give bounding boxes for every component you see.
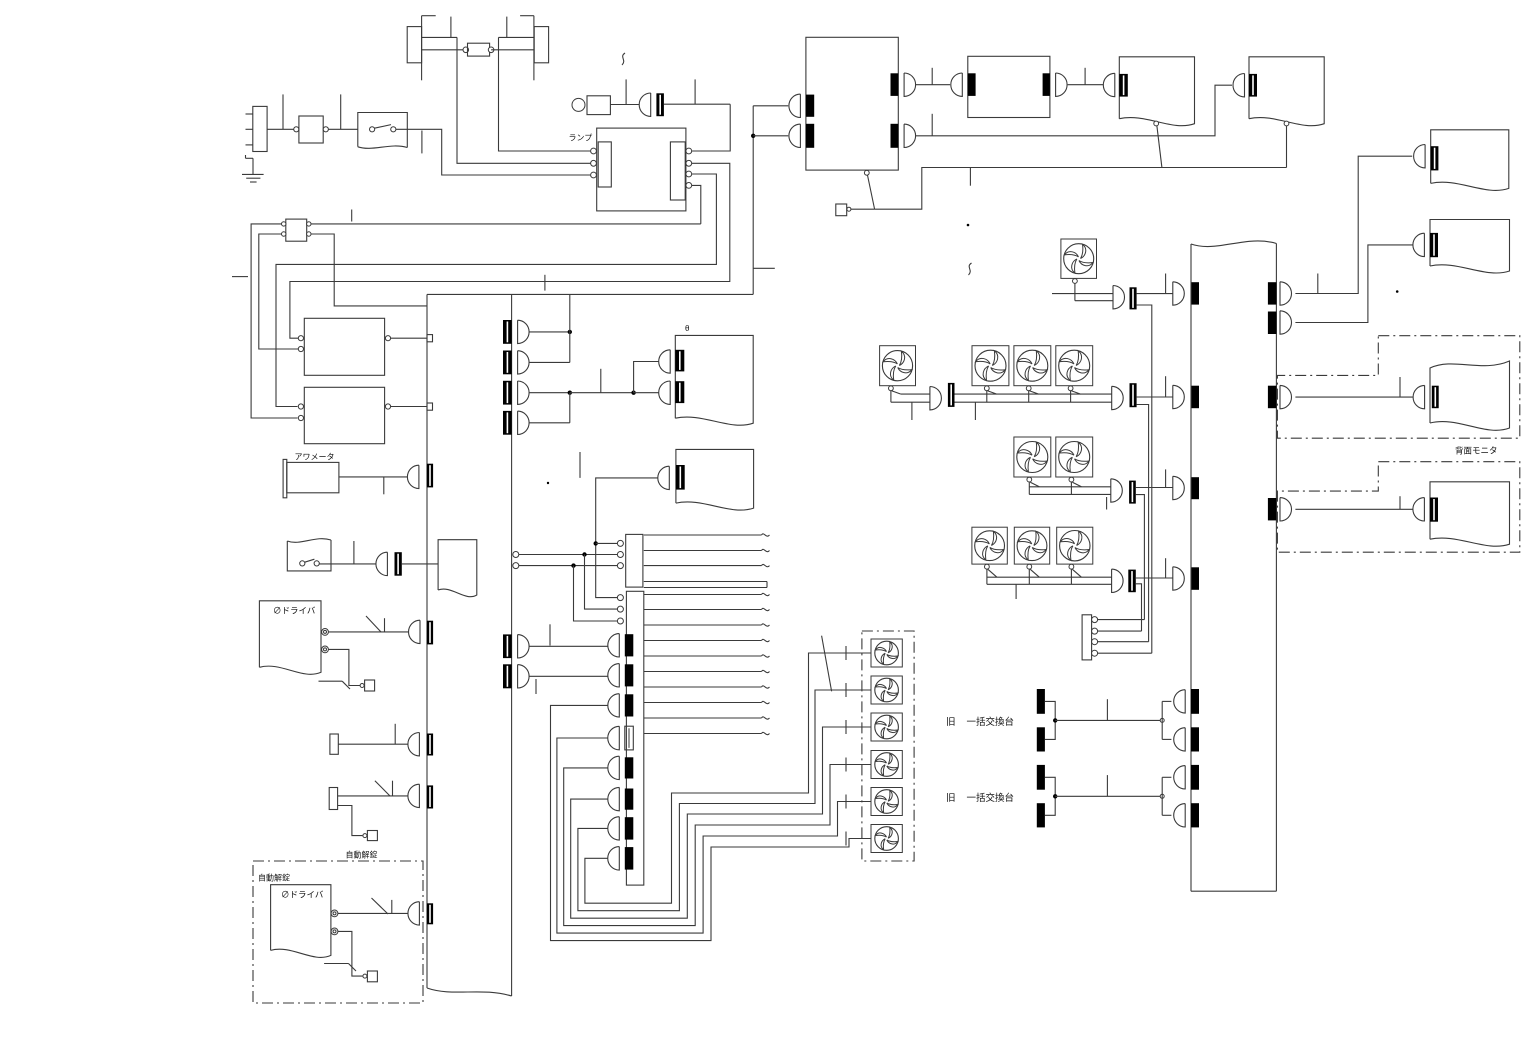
pin [1092,628,1098,634]
connector CF5 socket [1128,570,1136,593]
connector CJ8 socket [625,847,634,870]
device block D1 [330,734,338,754]
dot mark [547,482,549,484]
monitor sheet [1430,220,1510,273]
lamp DS1 [572,96,610,115]
connector plug [409,620,420,643]
pin [864,170,869,175]
wire [1137,396,1173,398]
wire (harness) [644,624,770,626]
exhaust fan M5 [1056,346,1093,403]
wire harness route 6 [585,653,871,903]
monitor sheet [1249,57,1324,126]
connector plug [376,552,387,575]
wire [491,49,534,51]
node stub [506,17,508,38]
connector CN1 socket [656,93,664,116]
svg-text:背面モニタ: 背面モニタ [1455,446,1498,456]
wire [1136,577,1173,579]
pin [686,160,692,166]
hour meter P1 [283,459,339,497]
monitor sheet θ [675,335,753,425]
dot mark [1396,290,1399,293]
switch S2 [287,539,331,571]
unit U3 [968,56,1050,117]
ground [242,155,264,182]
node stub [340,94,342,129]
wire [529,361,570,363]
pin [591,160,597,166]
cable trunk wavy bottom [427,988,512,996]
connector CB6 socket [503,664,512,688]
connector CP1 plug [1173,282,1185,305]
pin [331,910,338,917]
wire [402,563,438,565]
exhaust fan M8 [972,527,1007,584]
terminal box TB3 [1082,615,1092,660]
node stub [969,168,971,186]
wire [1136,495,1145,620]
exhaust fan M14 [871,751,902,779]
wire [338,795,408,797]
wire [955,401,1112,403]
wire [634,392,659,394]
cable mark [319,681,351,689]
tick [845,758,847,772]
control box A2 [298,387,390,443]
lamp unit U1 inner left header [598,142,611,187]
label ∅ドライバ 2 [281,890,324,900]
connector CB4 plug [518,411,530,434]
sensor box B4 [363,971,378,982]
wire [916,85,1232,136]
label 背面モニタ [1455,446,1498,456]
wire (harness) [644,564,770,566]
connector plug [407,465,419,488]
wire [396,129,591,175]
cable mark [375,781,393,796]
wire (harness) [644,655,770,657]
connector plug [904,124,916,147]
wire [1098,641,1149,643]
wire [610,104,639,106]
connector CJ3 socket [625,694,634,716]
connector CP1 socket [1191,282,1199,304]
pin [513,552,519,558]
wire [569,393,571,423]
node stub [383,477,385,494]
dashed enclosure (fan column) [862,631,914,861]
tick [845,646,847,660]
wire [529,422,570,424]
node stub [282,94,284,129]
svg-text:θ: θ [685,324,690,333]
monitor sheet [676,449,754,510]
connector socket [1430,233,1438,257]
exhaust fan M15 [871,788,902,816]
node stub [1106,497,1108,510]
pin [686,171,692,177]
connector CN1 plug [639,93,651,116]
node stub [1317,274,1319,294]
exhaust fan M11 [871,639,902,667]
connector CF2 plug [930,387,942,410]
wire [422,49,466,51]
wire harness route 4 [571,727,871,918]
wire [891,401,930,403]
pin [617,618,623,624]
exhaust fan M16 [871,825,902,853]
pin [1284,121,1289,126]
node stub [450,17,452,38]
wire [328,649,360,685]
node stub [394,724,396,744]
junction [631,391,635,395]
connector CR4 plug [1280,498,1292,521]
node stub [535,679,537,694]
connector CR4 socket [1268,498,1277,520]
wire [339,476,407,478]
connector plug [408,733,420,756]
wire [1286,126,1288,168]
connector CB4 socket [503,411,512,435]
wire (harness pair) [644,582,767,588]
wire [1136,584,1142,631]
terminal block TB1 (left clevis outer plate) [407,27,421,63]
label ランプ [569,134,593,143]
header J2 [626,591,643,885]
label ∅ドライバ [273,606,316,616]
edge tick [753,267,775,269]
node stub [1015,584,1017,599]
sensor box B3 [363,831,378,841]
connector CP2 plug [1173,385,1185,408]
wire [851,208,875,210]
connector CJ6 socket [625,789,634,810]
connector CB3 plug [518,381,530,404]
junction [568,391,572,395]
connector socket [891,73,899,96]
wire [1137,293,1173,295]
connector socket [427,785,433,808]
connector CB1 socket [503,320,512,344]
wire [987,583,1112,585]
wire [529,645,608,647]
wire [987,576,1112,578]
connector socket [968,73,976,96]
connector plug [408,784,419,807]
connector CR3 socket [1268,386,1277,409]
wire [311,223,701,225]
pin [331,928,338,935]
wire [1295,396,1412,398]
connector CJ6 plug [608,787,620,810]
svg-text:自動解錠: 自動解錠 [346,850,378,860]
wire (bus top rail) [427,293,753,295]
wire [328,128,357,130]
pin [617,595,623,601]
wire [1137,305,1152,653]
pin [322,646,329,653]
battery BT1 [246,106,268,151]
wire [574,566,618,621]
device block D2 [329,788,337,810]
terminal block TB2 (right clevis outer plate) [534,27,548,63]
exhaust fan M9 [1014,527,1049,584]
junction [582,552,586,556]
wire [391,406,427,408]
wire [1098,630,1142,632]
connector socket [806,95,814,117]
connector CJ1 socket [625,634,634,656]
wire [338,931,363,976]
connector plug [951,73,963,96]
connector CJ2 plug [608,664,620,687]
rear panel wavy top [1191,241,1276,247]
wire [569,294,571,362]
cable mark [372,898,392,914]
wire (harness) [644,639,770,641]
label 自動解錠 (inner) [258,873,290,883]
tick [845,795,847,809]
connector CR2 socket [1268,312,1277,335]
node stub [1165,469,1167,487]
connector plug [659,381,671,404]
exhaust fan M1 [1061,239,1113,301]
wire [1137,405,1149,642]
pin [591,172,597,178]
connector socket [806,124,814,148]
connector plug [658,466,670,489]
tick [845,720,847,734]
monitor sheet [1119,57,1194,126]
connector plug [1414,145,1426,168]
node stub [1399,377,1401,397]
sensor box B2 [360,680,375,691]
connector plug [789,124,800,147]
connector CF5 plug [1112,569,1124,592]
junction [594,541,598,545]
wire [529,331,570,333]
connector socket [676,465,685,490]
monitor sheet [1430,361,1510,430]
wire (harness) [644,732,770,734]
pin [617,552,623,558]
control unit U2 [806,37,898,170]
wire [1098,652,1152,654]
connector CB2 socket [503,351,512,375]
bus pad [427,403,433,410]
break mark [969,263,972,275]
svg-text:一括交換台: 一括交換台 [967,792,1015,804]
node stub [1399,496,1401,509]
wire [457,37,591,163]
cable trunk (left bus) [427,294,512,996]
connector CJ2 socket [625,664,634,686]
connector group (一括交換台 1) [1037,689,1199,752]
wire [520,15,534,17]
connector CJ8 plug [608,847,620,871]
wire [421,16,423,81]
wire [338,806,363,836]
connector socket [675,350,684,372]
node stub [549,624,551,645]
connector plug [1413,385,1425,408]
node stub [1165,558,1167,578]
connector socket [395,552,402,576]
svg-text:旧: 旧 [946,717,956,728]
connector CP3 plug [1173,476,1185,499]
exhaust fan M13 [871,713,902,741]
connector socket [427,903,433,924]
cable mark [324,964,356,972]
edge tick [232,276,248,278]
wire [1052,293,1113,295]
pin [1092,617,1098,623]
connector CF4 plug [1111,479,1123,502]
connector socket [1431,146,1439,170]
lever wire [1157,126,1162,168]
tick [845,683,847,697]
svg-text:一括交換台: 一括交換台 [967,716,1015,728]
wire [1068,84,1104,86]
connector plug [408,902,419,925]
connector CJ4 plug [608,726,620,750]
dashed enclosure (自動解錠) [253,861,423,1003]
connector socket [675,381,684,403]
connector plug [1413,498,1425,521]
connector socket [1043,73,1050,96]
wire [753,105,788,107]
wire (harness) [644,686,770,688]
wire [664,103,730,105]
node stub [931,68,933,85]
wire harness route 5 [578,690,871,911]
pin [617,540,623,546]
pin [1154,121,1159,126]
wire [1029,493,1111,495]
node stub [1165,274,1167,294]
connector socket [427,621,433,645]
wire [251,224,297,418]
header J1 [626,534,643,587]
label 旧 一括交換台 [946,716,1014,728]
fuse F1 [463,43,494,56]
svg-text:自動解錠: 自動解錠 [258,873,290,883]
wire [901,393,930,395]
node stub [1084,68,1086,85]
node stub [351,210,353,222]
node stub [694,79,696,104]
wire [338,912,408,914]
monitor sheet [438,540,477,597]
connector CR1 plug [1280,282,1292,305]
wire harness route 3 [564,765,871,926]
wire [533,16,535,81]
connector CF2 socket [948,383,955,407]
svg-text:∅ドライバ: ∅ドライバ [273,606,316,616]
svg-text:∅ドライバ: ∅ドライバ [281,890,324,900]
node stub [579,452,581,478]
connector socket [1432,386,1439,409]
cable mark [822,636,832,692]
dashed enclosure (rear monitor 2) [1277,462,1519,553]
wire harness route 2 [557,738,871,933]
wire [422,15,436,17]
connector CF1 socket [1130,287,1137,309]
monitor sheet [1431,130,1509,191]
connector plug [789,94,800,117]
wire (harness) [644,670,770,672]
wire (harness) [644,534,770,536]
wire (harness) [644,701,770,703]
exhaust fan M2 [880,346,916,403]
wire (harness) [644,549,770,551]
pin [1092,650,1098,656]
exhaust fan M7 [1056,437,1093,494]
dashed enclosure (rear monitor 1) [1277,336,1519,439]
label θ [685,324,690,333]
bus pad [427,335,433,342]
connector socket [1249,74,1257,97]
connector CP4 socket [1191,567,1199,590]
relay K2 [282,219,311,241]
node stub [974,402,976,420]
connector CR2 plug [1280,311,1292,334]
node stub [931,114,933,136]
node stub [911,402,913,420]
connector socket [1119,74,1128,97]
connector CJ5 socket [625,757,634,778]
tick [845,832,847,846]
connector CR1 socket [1268,282,1277,304]
connector CJ7 plug [608,817,620,840]
junction [751,134,755,138]
wire [692,185,701,224]
wire [570,392,634,394]
wire (harness) [644,593,770,595]
connector CB5 plug [518,635,530,658]
wire (harness) [644,717,770,719]
node stub [544,275,546,291]
wire [328,631,408,633]
wire [259,234,304,349]
pin [686,148,692,154]
exhaust fan M6 [1014,437,1051,494]
connector socket [427,464,433,488]
connector socket [891,124,899,148]
node stub [353,541,355,564]
connector CB6 plug [518,665,530,688]
pin [686,183,692,189]
dot mark [967,224,970,227]
connector CF3 socket [1130,383,1137,407]
wire [529,675,608,677]
pin [1092,639,1098,645]
exhaust fan M10 [1057,527,1093,584]
wire (harness) [644,608,770,610]
connector CB5 socket [503,634,512,658]
connector plug [904,73,916,96]
pin [617,563,623,569]
wire [875,168,1287,210]
monitor sheet [1430,482,1510,546]
wire [319,563,376,565]
wire [499,37,591,151]
break mark [622,53,625,65]
connector plug [1056,73,1068,96]
wire [634,362,659,393]
